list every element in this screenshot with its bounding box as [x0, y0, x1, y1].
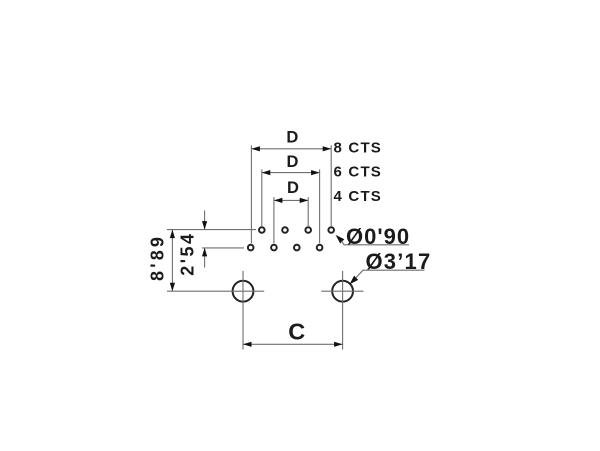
- hole B1 bottom row: [248, 245, 254, 251]
- centerline M2 vertical: [342, 271, 344, 350]
- dimension D 4CTS left extension line: [273, 197, 275, 243]
- dimension D 6CTS left extension line: [261, 169, 263, 226]
- dimension 8'89 line: [171, 230, 173, 292]
- dimension D 8CTS left extension line: [250, 145, 252, 243]
- svg-text:C: C: [288, 319, 305, 345]
- svg-text:D: D: [286, 129, 298, 147]
- label Ø3'17 leader arrow: [350, 276, 359, 285]
- dimension 2'54 upper stem: [204, 211, 206, 230]
- dimension 2'54 arrow up: [202, 248, 207, 257]
- svg-text:Ø0'90: Ø0'90: [346, 224, 410, 249]
- dimension 2'54 lower stem: [204, 248, 206, 268]
- centerline M1 vertical: [242, 271, 244, 350]
- hole B2 bottom row: [271, 245, 277, 251]
- centerline M1 horizontal: [167, 290, 264, 292]
- dimension D 4CTS line: [274, 199, 308, 201]
- dimension D 6CTS right extension line: [319, 169, 321, 243]
- dimension D 8CTS right extension line: [330, 145, 332, 226]
- dimension 8'89 arrow up: [170, 230, 175, 239]
- dimension C left arrow: [243, 342, 252, 347]
- svg-text:6 CTS: 6 CTS: [334, 163, 383, 180]
- dimension D 6CTS line: [262, 172, 320, 174]
- dimension D 8CTS line: [251, 148, 331, 150]
- dimension C right arrow: [334, 342, 343, 347]
- label Ø0'90 leader arrow: [336, 235, 345, 244]
- dimension 8'89 arrow down: [170, 283, 175, 292]
- dimension D 8CTS left arrow: [251, 146, 260, 151]
- centerline M2 horizontal: [321, 290, 363, 292]
- hole B4 bottom row: [317, 245, 323, 251]
- dimension 2'54 arrow down: [202, 221, 207, 230]
- hole T2 top row: [282, 227, 288, 233]
- dimension D 6CTS left arrow: [262, 170, 271, 175]
- svg-text:8'89: 8'89: [147, 234, 167, 281]
- hole B3 bottom row: [294, 245, 300, 251]
- svg-text:D: D: [287, 179, 299, 197]
- extension line bottom row (2'54 lower datum): [202, 247, 244, 249]
- dimension D 8CTS right arrow: [323, 146, 332, 151]
- mounting hole M2 (Ø3'17): [332, 281, 353, 302]
- svg-text:Ø3’17: Ø3’17: [366, 249, 432, 274]
- extension line top row (8'89 / 2'54 upper datum): [167, 229, 256, 231]
- dimension D 4CTS left arrow: [274, 198, 283, 203]
- svg-text:8 CTS: 8 CTS: [334, 140, 383, 157]
- svg-text:2'54: 2'54: [177, 231, 197, 275]
- hole T1 top row: [259, 227, 265, 233]
- dimension C line: [243, 343, 343, 345]
- label Ø3'17 leader line: [356, 270, 425, 278]
- hole T4 top row: [328, 227, 334, 233]
- label Ø0'90 leader line: [342, 241, 410, 245]
- svg-text:4 CTS: 4 CTS: [334, 188, 383, 205]
- hole T3 top row: [305, 227, 311, 233]
- dimension D 4CTS right extension line: [307, 197, 309, 226]
- svg-text:D: D: [287, 153, 299, 171]
- dimension D 6CTS right arrow: [311, 170, 320, 175]
- mounting hole M1 (Ø3'17): [233, 281, 254, 302]
- dimension D 4CTS right arrow: [300, 198, 309, 203]
